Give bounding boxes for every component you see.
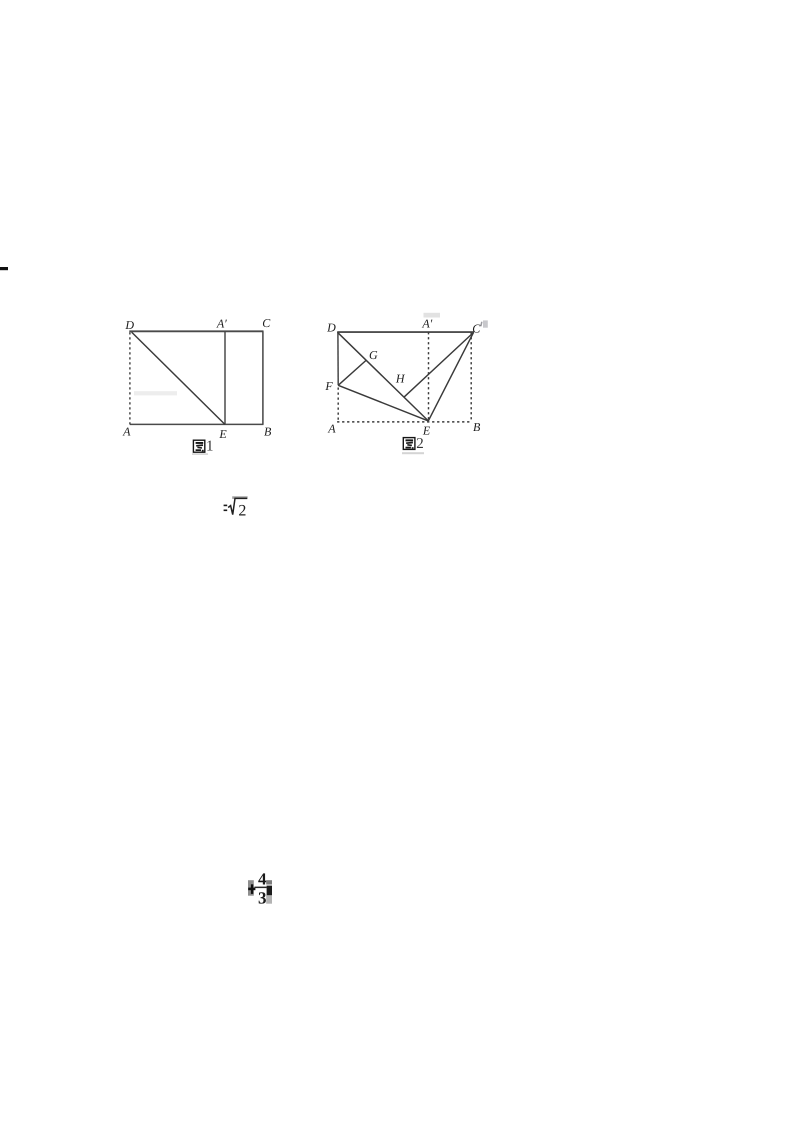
fig2 dashed bottom AB xyxy=(337,421,472,423)
sqrt2 radical xyxy=(228,498,247,514)
fig1 right edge CB xyxy=(262,331,264,424)
fig2 segment HC' xyxy=(404,332,474,397)
svg-text:C: C xyxy=(262,316,271,330)
fig2 dashed vertical A'E xyxy=(428,332,430,422)
fraction plus sign xyxy=(251,884,253,894)
svg-text:D: D xyxy=(124,318,134,332)
fig1 vertical A'E xyxy=(224,331,226,424)
svg-text:A: A xyxy=(122,425,131,439)
svg-text:B: B xyxy=(264,425,272,439)
fraction white box xyxy=(248,864,272,912)
fig1 top edge DC xyxy=(129,330,263,332)
svg-text:3: 3 xyxy=(258,888,267,907)
svg-text:H: H xyxy=(395,371,406,385)
fig2 gray patch above A' xyxy=(424,313,441,318)
svg-text:F: F xyxy=(324,379,333,393)
fig2 caption glyph box (tu) xyxy=(403,438,415,450)
fig2 segment FE xyxy=(338,385,428,421)
fraction gray patch left xyxy=(248,880,254,896)
fig2 gray patch right of C xyxy=(483,320,488,327)
fig1 left dashed edge AD xyxy=(129,332,131,424)
fig2 diagonal DE xyxy=(338,332,429,421)
fraction gray patch right upper xyxy=(266,880,272,884)
svg-text:A′: A′ xyxy=(421,316,432,330)
svg-text:1: 1 xyxy=(206,439,214,455)
fraction right dark mark xyxy=(267,886,272,896)
fig2 dashed right C'B xyxy=(470,332,472,422)
fig1 bottom edge AB xyxy=(130,423,264,425)
svg-text:2: 2 xyxy=(416,436,424,452)
svg-text:C: C xyxy=(472,322,481,336)
fig2 left edge DF xyxy=(337,332,339,385)
fig2 top edge DC' xyxy=(337,331,474,333)
left margin dash xyxy=(0,267,8,270)
svg-text:4: 4 xyxy=(258,869,267,888)
fig1 diagonal DE xyxy=(132,332,225,424)
svg-text:D: D xyxy=(326,320,336,334)
fig2 dashed vertical FA xyxy=(337,388,339,422)
svg-text:A: A xyxy=(327,421,336,435)
svg-text:E: E xyxy=(218,427,227,441)
sqrt2 white box xyxy=(224,496,248,521)
fig2 caption underline xyxy=(402,452,424,454)
fig1 faint smudge xyxy=(134,391,177,395)
fraction bar xyxy=(254,887,266,889)
fig2 segment FG xyxy=(338,361,366,386)
sqrt2 equals sign fragment xyxy=(224,505,228,507)
svg-text:B: B xyxy=(473,420,481,434)
fig1 caption glyph box (tu) xyxy=(193,440,204,452)
fig2 segment EC' xyxy=(428,332,473,421)
svg-text:2: 2 xyxy=(238,503,246,520)
fraction gray patch right lower xyxy=(266,895,272,904)
fig1 caption underline xyxy=(192,453,208,455)
svg-text:A′: A′ xyxy=(216,317,227,331)
svg-text:G: G xyxy=(369,348,378,362)
sqrt2 gray top band xyxy=(232,496,247,499)
